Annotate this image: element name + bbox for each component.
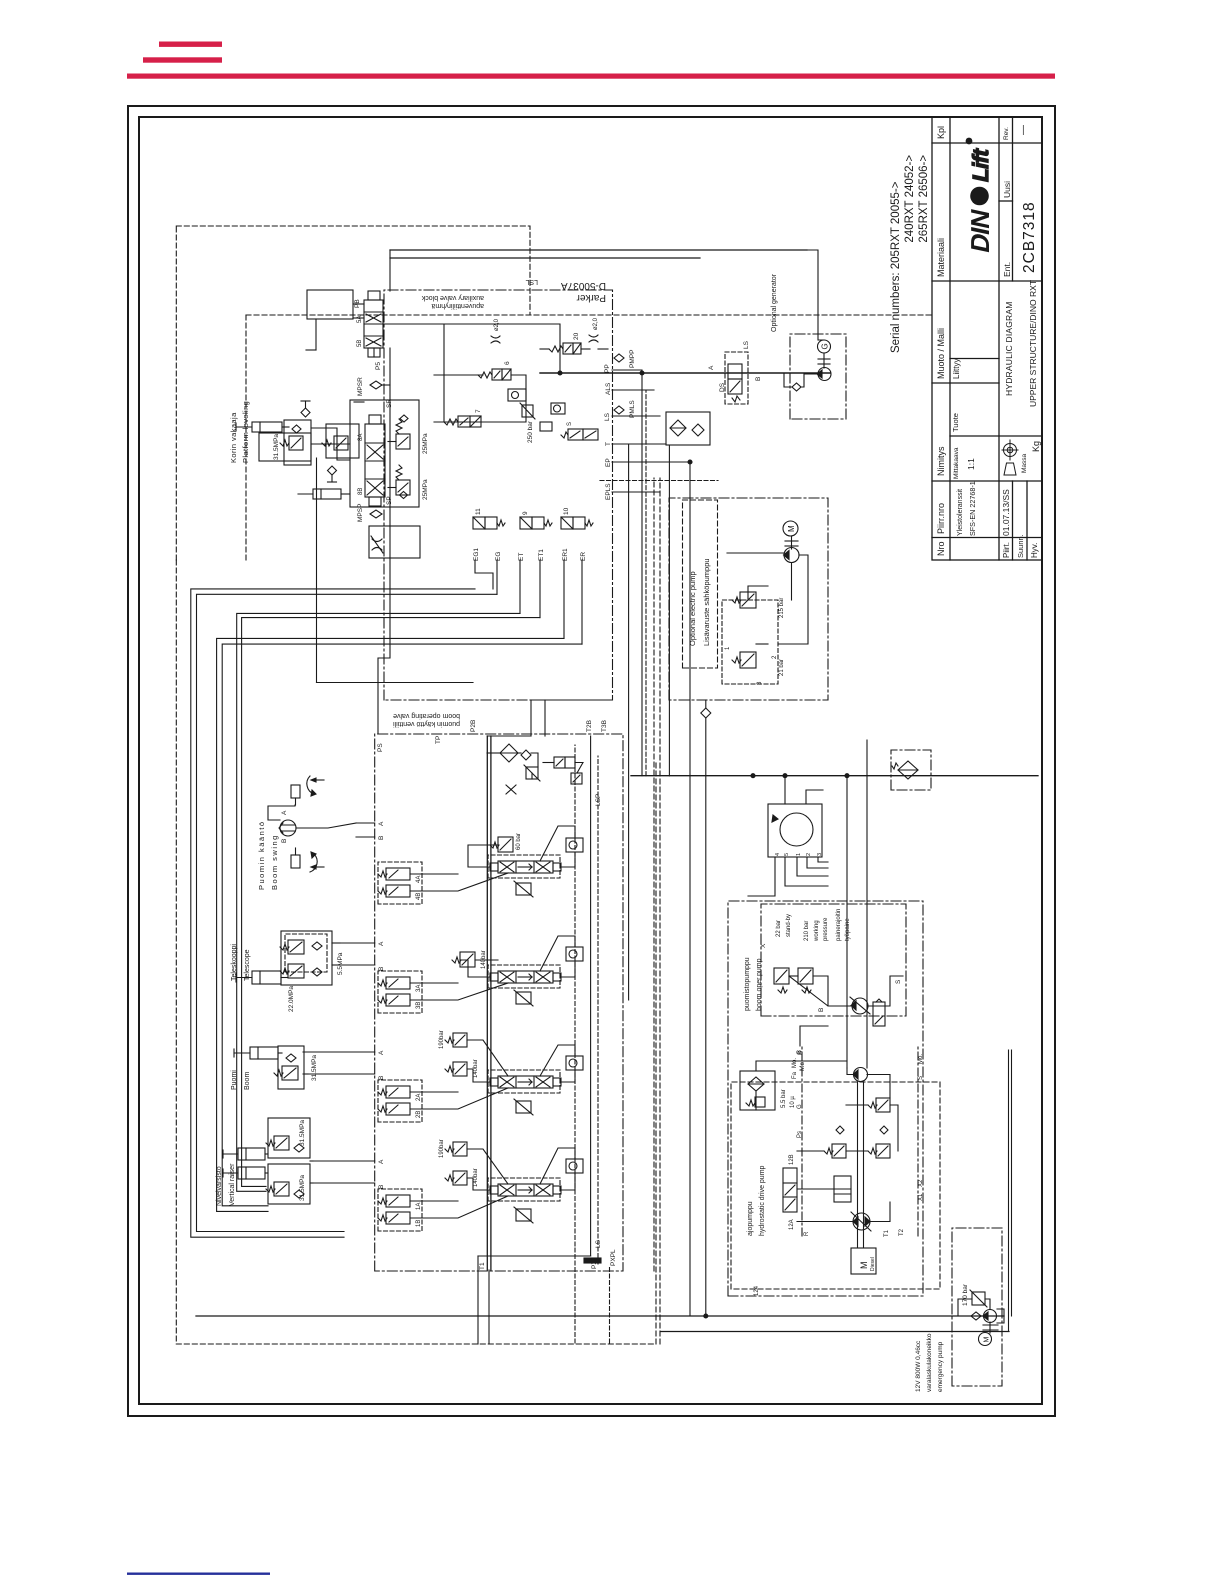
red header rule	[127, 74, 1055, 79]
svg-text:250 bar: 250 bar	[527, 420, 534, 443]
wire EPLS branch dashed	[600, 480, 718, 482]
svg-text:B: B	[281, 839, 288, 843]
port ALS	[605, 382, 612, 395]
port ER1	[562, 548, 569, 561]
boom valve boundary	[375, 734, 623, 1271]
electric pump piping	[727, 553, 808, 644]
svg-text:B: B	[378, 1185, 385, 1189]
pilot valve 4B	[378, 885, 422, 900]
electric pump valves box	[722, 600, 778, 684]
servo valve 12B/12A	[783, 1154, 797, 1230]
svg-text:ET: ET	[518, 553, 525, 561]
svg-text:60 bar: 60 bar	[516, 833, 522, 850]
platform inner box	[259, 433, 311, 461]
junction P cross	[640, 371, 644, 375]
port B3	[378, 967, 385, 971]
svg-text:EG1: EG1	[473, 548, 480, 561]
svg-text:varalaskulakoneikko: varalaskulakoneikko	[926, 1333, 933, 1392]
svg-text:S: S	[567, 422, 573, 426]
svg-text:T3B: T3B	[601, 720, 608, 732]
svg-text:Fa: Fa	[792, 1071, 798, 1079]
svg-text:B: B	[378, 1076, 385, 1080]
P rail 2	[490, 736, 492, 1270]
boom pump boundary	[761, 904, 906, 1016]
blue footer line	[127, 1573, 270, 1575]
wire P rail to boundary	[488, 1270, 490, 1344]
wire item6 to item7	[434, 375, 526, 422]
DINO lift logo	[965, 138, 995, 256]
svg-text:2: 2	[806, 853, 812, 856]
wire E ports to valves	[475, 560, 582, 644]
svg-text:emergency pump: emergency pump	[937, 1341, 944, 1392]
port ET	[518, 553, 525, 561]
raiser cylinder 1	[223, 1148, 265, 1160]
pilot valve 2A	[378, 1086, 422, 1101]
svg-text:B: B	[818, 1008, 825, 1012]
svg-text:LS: LS	[743, 340, 750, 349]
compensator 140 bar s3	[452, 950, 487, 969]
solenoid cartridge valve 6	[478, 361, 511, 380]
svg-text:puomin käyttö venttiili: puomin käyttö venttiili	[393, 720, 460, 727]
suction filter box	[891, 750, 931, 790]
svg-text:10: 10	[563, 507, 570, 515]
LS rail dashed	[574, 745, 576, 1246]
pilot box	[540, 422, 552, 431]
wire ALS dashed	[645, 390, 647, 776]
svg-text:ER: ER	[580, 552, 587, 561]
pilot surround s2	[378, 1080, 422, 1122]
port EG	[495, 552, 502, 561]
svg-text:140bar: 140bar	[473, 1059, 479, 1078]
svg-text:22.0MPa: 22.0MPa	[288, 986, 295, 1012]
solenoid cartridge valve 9	[520, 511, 552, 529]
pilot surround s1	[378, 1189, 422, 1231]
port 1	[725, 646, 731, 650]
svg-text:apuventtiiliryhmä: apuventtiiliryhmä	[431, 302, 484, 309]
svg-text:B: B	[378, 836, 385, 840]
port A3	[378, 941, 385, 946]
svg-text:20: 20	[573, 332, 580, 340]
emergency motor	[979, 1333, 992, 1346]
port T	[605, 442, 612, 446]
svg-text:Lisävaruste sähköpumppu: Lisävaruste sähköpumppu	[702, 558, 711, 646]
serial numbers note	[890, 155, 930, 353]
inlet section filter	[500, 744, 518, 762]
label 31.5MPa raiser B	[299, 1175, 306, 1201]
label 31.5MPa platform	[273, 434, 280, 460]
svg-text:Massa: Massa	[1021, 453, 1028, 473]
svg-text:Nimitys: Nimitys	[936, 446, 946, 476]
solenoid valve DS	[719, 364, 742, 402]
port P2B	[470, 720, 477, 732]
compensator 190bar s1	[439, 1139, 467, 1158]
svg-text:10 µ: 10 µ	[790, 1096, 796, 1108]
svg-text:265RXT 26506->: 265RXT 26506->	[918, 155, 930, 243]
power unit boundary	[728, 901, 923, 1296]
main spool 2	[490, 1076, 561, 1088]
rotary union piping right	[785, 776, 823, 804]
machine dashed boundary inner	[246, 314, 931, 316]
section relief 4	[514, 881, 533, 897]
svg-text:170 bar: 170 bar	[962, 1283, 969, 1306]
svg-text:G: G	[821, 343, 830, 349]
boom pump solenoid	[873, 999, 885, 1026]
line 5B lower	[390, 257, 700, 259]
svg-text:210 bar: 210 bar	[804, 921, 810, 941]
svg-text:A: A	[708, 365, 715, 370]
svg-text:2A: 2A	[416, 1094, 422, 1101]
orifice o2,0 upper	[491, 318, 500, 343]
svg-text:EG: EG	[495, 552, 502, 561]
electric motor M	[783, 521, 798, 536]
machine dashed boundary inner top	[245, 315, 247, 560]
svg-text:3: 3	[817, 853, 823, 856]
port EP	[605, 458, 612, 467]
port T2B	[586, 720, 593, 732]
check valve 25MPa A	[400, 415, 408, 422]
wire T1 to boundary	[478, 1256, 591, 1344]
wire union line 2	[661, 1331, 1009, 1333]
wires section 3	[332, 936, 575, 1000]
wire LS out	[574, 1246, 576, 1343]
wire EG line	[197, 594, 498, 1231]
label apuventtiiliryhma	[431, 302, 484, 309]
svg-text:DIN: DIN	[965, 207, 995, 255]
wire union pair b	[1011, 1050, 1013, 1316]
drawing outer border frame	[128, 106, 1055, 1416]
svg-text:12V 800W 0,46cc: 12V 800W 0,46cc	[915, 1340, 922, 1392]
label B outside	[797, 1051, 804, 1055]
label 22.0MPa	[288, 986, 295, 1012]
inlet piping	[487, 753, 583, 779]
relief valve 215 bar	[732, 592, 785, 618]
port SP	[386, 496, 393, 505]
wire S rail low 1	[846, 776, 848, 1068]
label boom operating valve	[393, 720, 460, 727]
node A	[708, 365, 715, 370]
main drive pump	[851, 1212, 871, 1231]
relief valve hydro 1	[824, 1144, 846, 1158]
svg-text:Boom swing: Boom swing	[270, 834, 279, 890]
first-angle projection symbol	[1002, 440, 1018, 475]
port ER	[580, 552, 587, 561]
emergency pump circle	[983, 1310, 997, 1323]
solenoid valve pair S	[561, 422, 598, 440]
T rail	[590, 736, 592, 1256]
svg-text:auxiliary valve block: auxiliary valve block	[421, 294, 484, 301]
wire P to S cross	[641, 373, 643, 776]
solenoid cartridge valve 11	[473, 508, 505, 529]
pilot valve 3B	[378, 994, 422, 1009]
svg-text:25MPa: 25MPa	[422, 479, 429, 500]
svg-text:MPSP: MPSP	[357, 504, 364, 522]
wire item7 link	[444, 324, 449, 422]
svg-text:T2: T2	[899, 1228, 905, 1236]
label B boom pump	[818, 1008, 825, 1012]
svg-text:PMPP: PMPP	[629, 350, 636, 368]
svg-text:Hyv.: Hyv.	[1030, 543, 1039, 558]
node B	[755, 377, 762, 381]
platform piping	[282, 427, 473, 683]
platform cylinder 1	[236, 422, 282, 432]
electric pump coupling	[785, 536, 798, 549]
pilot valve 4A	[378, 868, 422, 883]
svg-text:Diesel: Diesel	[870, 1257, 876, 1271]
relief valve hydro 3	[868, 1098, 890, 1112]
servo cylinder	[834, 1176, 851, 1202]
pilot valve 1A	[378, 1195, 422, 1210]
svg-text:S: S	[895, 979, 902, 984]
svg-text:9: 9	[522, 511, 529, 515]
section relief 2	[514, 1099, 533, 1115]
svg-text:2CB7318: 2CB7318	[1021, 201, 1038, 273]
svg-text:LS: LS	[604, 412, 611, 421]
svg-text:Puomin kääntö: Puomin kääntö	[257, 820, 266, 890]
label LS generator	[743, 340, 750, 349]
rotary union ports	[775, 853, 823, 856]
relief valve 21 bar	[732, 652, 785, 676]
port P5	[375, 362, 382, 370]
electric pump label box	[683, 500, 718, 668]
Optional electric pump boundary	[669, 498, 828, 700]
svg-text:5.5MPa: 5.5MPa	[337, 952, 344, 975]
wire ET1 line	[242, 618, 540, 1187]
label boom oper pump	[744, 957, 763, 1011]
spool surround s3	[488, 965, 560, 988]
label emergency pump	[915, 1333, 944, 1392]
orifice o2,0 lower	[589, 317, 599, 342]
swing rotation indicator left	[291, 848, 324, 872]
pilot valve 3A	[378, 977, 422, 992]
svg-text:TP: TP	[435, 736, 442, 744]
check hydro 1	[836, 1126, 844, 1134]
machine dashed boundary lower	[655, 760, 657, 1344]
spool surround s4	[488, 855, 560, 878]
spool surround s2	[488, 1070, 560, 1093]
solenoid cartridge valve 7	[444, 409, 482, 427]
filter block EP/T	[666, 412, 710, 445]
svg-text:11: 11	[475, 508, 482, 515]
main spool 4	[490, 861, 561, 873]
label 210 bar working	[804, 909, 851, 942]
svg-text:Ent.: Ent.	[1002, 262, 1012, 277]
svg-text:Uusi: Uusi	[1002, 181, 1012, 198]
charge pump	[853, 1068, 868, 1082]
port T3B	[601, 720, 608, 732]
pilot surround s4	[378, 862, 422, 904]
line 5B to generator	[390, 249, 807, 251]
directional valve 5A/5B	[357, 291, 383, 357]
aux block body	[350, 400, 419, 507]
svg-text:Optional generator: Optional generator	[771, 273, 778, 332]
wire T drop line	[628, 444, 630, 1000]
svg-text:B: B	[378, 967, 385, 971]
label boom operating valve en	[393, 712, 460, 719]
svg-text:UPPER STRUCTURE/DINO RXT: UPPER STRUCTURE/DINO RXT	[1028, 280, 1038, 407]
svg-text:1B: 1B	[416, 1220, 422, 1227]
raiser piping	[265, 1154, 313, 1183]
svg-text:5.5 bar: 5.5 bar	[781, 1089, 787, 1108]
svg-text:Tuote: Tuote	[951, 413, 960, 432]
compensator 140bar s2	[445, 1059, 479, 1078]
generator piping	[784, 250, 824, 387]
svg-text:Vertical raiser: Vertical raiser	[229, 1163, 236, 1206]
port B swing	[281, 839, 288, 843]
label 170 bar	[962, 1283, 969, 1306]
telescope valve block	[280, 931, 332, 985]
svg-text:Telescope: Telescope	[244, 949, 251, 981]
hydro inner frame	[802, 1046, 918, 1236]
boom valve block	[274, 1046, 304, 1089]
svg-text:M: M	[787, 525, 796, 532]
P rail 1	[486, 736, 488, 1270]
wire union pair a	[1008, 1050, 1010, 1331]
svg-text:SFS-EN 22768-1: SFS-EN 22768-1	[968, 481, 977, 536]
telescope piping	[281, 943, 340, 978]
regulator valve 210bar	[798, 968, 813, 993]
svg-text:5A: 5A	[357, 316, 363, 323]
svg-text:S: S	[918, 1076, 924, 1080]
check circle 1	[566, 1159, 583, 1173]
red header bar short 2	[143, 57, 222, 62]
svg-text:—: —	[1018, 125, 1029, 135]
label boom	[231, 1070, 251, 1090]
svg-text:1: 1	[796, 853, 802, 856]
svg-text:140bar: 140bar	[473, 1168, 479, 1187]
svg-text:P5: P5	[375, 362, 382, 370]
label auxiliary valve block	[421, 294, 484, 301]
machine dashed boundary right	[176, 226, 530, 315]
swing rotation indicator right	[291, 776, 324, 805]
generator G	[818, 340, 831, 353]
pilot surround s3	[378, 971, 422, 1013]
svg-text:LSL: LSL	[525, 278, 538, 285]
wire ET line	[237, 613, 520, 1191]
wire filter F drop	[668, 445, 670, 776]
boom piping	[278, 1053, 308, 1074]
svg-text:3A: 3A	[416, 985, 422, 992]
machine dashed boundary top	[176, 560, 656, 1344]
drive shaft	[858, 1082, 864, 1248]
svg-text:5: 5	[784, 853, 790, 856]
junction T low	[704, 1314, 708, 1318]
boom cylinder	[234, 1047, 278, 1059]
port A2	[378, 1050, 385, 1055]
hydro piping	[756, 1061, 898, 1222]
svg-text:puomistopumppu: puomistopumppu	[744, 957, 751, 1011]
label hydrostatic	[747, 1165, 766, 1236]
directional valve 8A/8B	[358, 415, 385, 506]
svg-text:boom oper.pump: boom oper.pump	[756, 958, 763, 1011]
port PP	[604, 364, 611, 373]
generator pump	[817, 368, 831, 381]
platform leveling label	[229, 401, 250, 463]
raiser valve block A	[266, 1118, 310, 1158]
rotary union	[768, 804, 822, 857]
svg-text:Suunn.: Suunn.	[1016, 534, 1025, 558]
shuttle valve	[551, 403, 565, 414]
svg-text:Platform leveling: Platform leveling	[241, 401, 250, 463]
port PMPP	[614, 350, 636, 368]
relief valve 25MPa (B)	[388, 465, 429, 500]
svg-text:3B: 3B	[416, 1002, 422, 1009]
port PXPL	[610, 1249, 617, 1266]
svg-text:12A: 12A	[789, 1219, 795, 1230]
pilot valve 2B	[378, 1103, 422, 1118]
svg-text:A: A	[281, 810, 288, 815]
port LS	[604, 412, 611, 421]
svg-text:PB: PB	[354, 299, 361, 308]
wire S rail low 2	[866, 740, 868, 1068]
svg-text:hydrostatic drive pump: hydrostatic drive pump	[759, 1165, 766, 1236]
svg-text:Mittakaava: Mittakaava	[953, 447, 960, 479]
svg-text:D-50037A: D-50037A	[561, 280, 606, 291]
main spool 3	[490, 971, 561, 983]
T rail vertical	[631, 775, 1038, 777]
svg-text:T1: T1	[479, 1262, 486, 1270]
rotary union piping left	[748, 857, 828, 896]
port A1	[378, 1159, 385, 1164]
svg-text:Kg: Kg	[1031, 441, 1041, 452]
port PS	[377, 743, 384, 752]
svg-text:1A: 1A	[416, 1203, 422, 1210]
port LS low	[595, 1239, 602, 1248]
svg-text:EPLS: EPLS	[605, 483, 612, 500]
svg-text:T1: T1	[884, 1229, 890, 1237]
junction EP	[688, 460, 692, 464]
boom pump piping	[789, 976, 903, 1046]
port block PX	[584, 1258, 601, 1263]
inlet check valve	[521, 750, 531, 760]
check valve MPSP	[357, 504, 382, 522]
inlet reducer valve	[524, 765, 540, 781]
wire T bottom long	[196, 1315, 1004, 1317]
label vertical raiser	[216, 1163, 236, 1206]
svg-text:T: T	[605, 442, 612, 446]
svg-text:Parker: Parker	[576, 292, 606, 303]
line 5A branch	[383, 324, 560, 373]
svg-text:X2: X2	[918, 1179, 924, 1187]
wire ER line	[222, 644, 582, 1206]
wires section 1	[313, 1148, 575, 1218]
svg-text:124: 124	[754, 1285, 760, 1296]
junction	[751, 774, 755, 778]
wire EG1 line	[191, 589, 475, 1237]
svg-text:P2B: P2B	[470, 720, 477, 732]
svg-text:Lift: Lift	[968, 146, 993, 185]
label 31.5MPa boom	[311, 1055, 318, 1081]
svg-text:Materiaali: Materiaali	[936, 238, 946, 277]
wire PS link	[487, 700, 612, 736]
main pressure line PP-A-B	[540, 372, 830, 374]
check circle 4	[566, 838, 583, 852]
port B1	[378, 1185, 385, 1189]
svg-text:PP: PP	[604, 364, 611, 373]
section relief 3	[514, 990, 533, 1006]
label S boom pump	[895, 979, 902, 984]
svg-text:PMLS: PMLS	[629, 400, 636, 418]
check valve platform mid	[328, 466, 337, 482]
svg-text:12B: 12B	[789, 1154, 795, 1165]
wire EPLS dashed rail 2	[659, 478, 661, 1344]
label 5.5MPa	[337, 952, 344, 975]
svg-text:Muoto / Malli: Muoto / Malli	[936, 328, 946, 379]
svg-text:A: A	[378, 821, 385, 826]
platform cylinder 2	[298, 489, 341, 499]
emergency boundary	[952, 1228, 1002, 1386]
relief valve hydro 2	[868, 1144, 890, 1158]
label 31.5MPa raiser A	[299, 1120, 306, 1146]
